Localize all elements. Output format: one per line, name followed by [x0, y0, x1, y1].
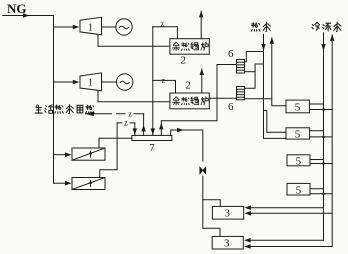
svg-text:5: 5: [295, 129, 301, 141]
svg-text:5: 5: [296, 155, 302, 167]
svg-text:7: 7: [149, 142, 155, 154]
svg-text:5: 5: [296, 184, 302, 196]
svg-text:z: z: [128, 110, 132, 119]
svg-text:5: 5: [295, 102, 301, 114]
svg-text:6: 6: [228, 48, 234, 60]
svg-text:NG: NG: [7, 1, 27, 16]
svg-text:3: 3: [224, 238, 230, 250]
svg-text:z: z: [162, 76, 166, 85]
svg-text:2: 2: [185, 79, 191, 91]
svg-text:z: z: [161, 20, 165, 29]
svg-text:6: 6: [228, 101, 234, 113]
svg-text:2: 2: [181, 55, 187, 67]
svg-text:z: z: [124, 118, 128, 127]
svg-text:3: 3: [225, 208, 231, 220]
svg-text:1: 1: [88, 23, 93, 34]
svg-text:1: 1: [88, 78, 93, 89]
